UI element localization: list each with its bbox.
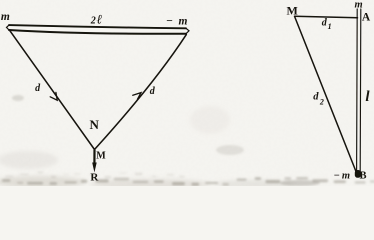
arrowhead on left line (pointing toward N) <box>50 92 57 100</box>
svg-text:1: 1 <box>328 22 332 31</box>
svg-text:d: d <box>313 92 319 103</box>
svg-text:ℓ: ℓ <box>97 12 103 27</box>
faint scan blotches <box>0 106 295 189</box>
arrowhead on right line (pointing toward -m) <box>133 93 141 100</box>
ghost text band (show-through at page bottom) <box>2 95 374 186</box>
svg-text:−: − <box>333 170 339 181</box>
wire: line d1 from M to pole A <box>295 16 358 18</box>
wire: line d from point N to pole -m <box>95 35 187 150</box>
svg-text:2: 2 <box>319 97 324 106</box>
svg-text:M: M <box>287 4 298 18</box>
svg-text:2: 2 <box>90 16 96 27</box>
svg-text:m: m <box>1 11 10 23</box>
bottom cap of magnet at B <box>355 170 361 178</box>
svg-text:N: N <box>90 117 100 132</box>
svg-text:A: A <box>362 11 371 23</box>
svg-text:R: R <box>90 172 99 184</box>
resultant field arrow (vertical, downward) <box>93 150 95 166</box>
svg-text:−: − <box>166 15 173 27</box>
svg-text:m: m <box>179 15 188 27</box>
bar magnet (left figure, poles m and -m) <box>7 25 190 34</box>
svg-text:m: m <box>342 170 350 181</box>
svg-text:M: M <box>96 151 106 162</box>
wire: line d from pole m to point N <box>10 30 95 149</box>
svg-text:B: B <box>359 170 366 181</box>
magnet AB (double vertical line) <box>356 9 359 172</box>
svg-text:m: m <box>355 0 363 11</box>
wire: line d2 from M to pole B <box>295 17 356 172</box>
